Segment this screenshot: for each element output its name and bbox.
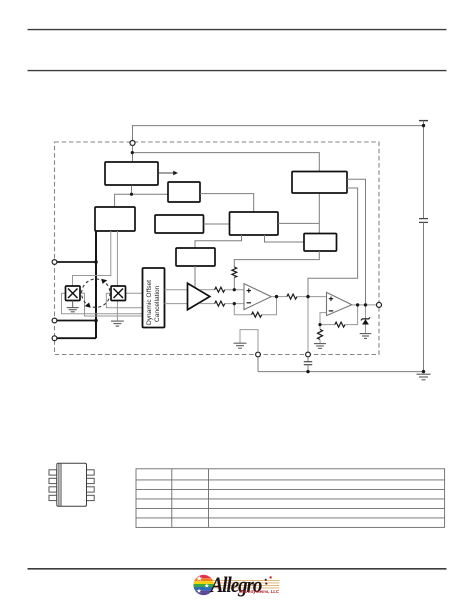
resistor R3: [215, 301, 225, 306]
wire Hall left to ground: [72, 301, 74, 308]
block B3: [168, 182, 200, 202]
ground (below Hall left): [67, 308, 79, 312]
node U2 out zener: [364, 303, 367, 306]
svg-text:Dynamic Offset: Dynamic Offset: [146, 280, 153, 325]
wire U1 feedback left leg: [234, 304, 251, 315]
wire node to R6: [320, 324, 335, 326]
resistor R2: [215, 287, 225, 292]
wire Hall right to DOC (direct): [126, 292, 143, 294]
node U2 minus: [318, 323, 321, 326]
block B4: [155, 215, 204, 233]
wire DOC out lower: [165, 303, 191, 305]
block B7 (clamp): [292, 172, 347, 194]
pin VCC (open circle on boundary): [130, 141, 135, 146]
pin VOUT (open circle): [377, 302, 382, 307]
Hall element left: [66, 286, 81, 301]
op-amp U1: [244, 284, 271, 310]
op-amp U2: [327, 292, 352, 315]
wire A1 out lower: [200, 303, 215, 305]
logo pinstripes: [212, 580, 280, 588]
supply bus (thick) Hall area: [95, 231, 97, 338]
wire B3 to B5: [200, 194, 254, 212]
wire C1 to ground rail: [423, 222, 425, 371]
wire B4 to B5: [204, 223, 230, 225]
wire B5 bottom to B6 top: [195, 235, 242, 248]
chopper rotation circle: [82, 279, 110, 308]
node bus-pin2: [94, 319, 98, 323]
wire to block B3: [132, 193, 169, 195]
wire ground pin to internal ground: [240, 330, 258, 353]
pin left 1: [52, 260, 57, 265]
node U1 minus: [233, 302, 236, 305]
wire pin2 stub: [57, 320, 96, 322]
node C2 on ground wire: [306, 370, 309, 373]
wire R4 to U1 output: [262, 297, 277, 315]
node below supply pin: [131, 151, 134, 154]
block B9: [304, 234, 337, 252]
wire R1 to plus node: [233, 277, 235, 290]
ground (external, right): [417, 374, 431, 380]
block B6: [176, 248, 215, 266]
ground (below Hall right): [111, 321, 124, 326]
wire Hall left to DOC (lower bundle 1): [62, 293, 143, 314]
svg-text:Allegro: Allegro: [209, 574, 262, 598]
resistor R6 (feedback U2): [335, 322, 345, 327]
wire U1 output: [271, 296, 287, 298]
ground (below zener): [360, 334, 372, 339]
resistor R1 (vertical): [232, 267, 237, 277]
wire R6 to U2 output: [345, 305, 358, 325]
wire pin1 stub: [57, 261, 96, 263]
wire to block B2: [115, 194, 132, 207]
wire plus node down to bypass pin: [307, 297, 309, 353]
ground (internal, pin path): [234, 343, 247, 348]
wire B9 bottom to resistor R1: [234, 251, 319, 267]
wire supply pin into regulator: [132, 146, 134, 162]
wire U2 output: [352, 304, 377, 306]
wire DOC out upper: [165, 289, 191, 291]
svg-text:MicroSystems, LLC: MicroSystems, LLC: [239, 589, 280, 594]
wire VCC horizontal to supply pin: [133, 126, 424, 141]
IC boundary (dashed): [55, 142, 380, 355]
wire pin3 stub: [57, 337, 96, 339]
wire Hall left right-terminal to DOC (lower bundle 2): [80, 293, 143, 316]
wire U2 minus leg: [320, 313, 327, 325]
ground (below R7): [314, 344, 326, 349]
wire B2 to Hall right top: [116, 231, 118, 286]
block B2: [95, 207, 135, 231]
wire supply to clamp block B7: [132, 153, 319, 171]
wire B7 bottom to B9 top: [318, 193, 320, 234]
node ground-wire junction: [422, 370, 425, 373]
capacitor C1 (bypass): [419, 219, 428, 223]
VCC terminal: [419, 120, 428, 122]
wire B1 bottom branch: [131, 186, 133, 195]
arrow to-all-subcircuits: [159, 171, 178, 176]
wire Hall right to ground: [116, 301, 118, 321]
footer rule: [28, 568, 447, 570]
logo trademark dots: [265, 576, 272, 584]
dynamic offset cancellation block: [143, 268, 165, 328]
resistor R5 (series): [287, 294, 297, 299]
resistor R4 (feedback U1): [252, 312, 262, 317]
capacitor C2: [304, 357, 312, 372]
wire B7 to output node (right stub): [347, 179, 366, 305]
block B5: [230, 212, 279, 235]
node bus-pin1: [94, 260, 98, 264]
header rule bottom: [28, 70, 447, 72]
wire A1 out upper: [200, 289, 215, 291]
node VCC-wire junction: [422, 124, 425, 127]
pin left 2: [52, 318, 57, 323]
wire B5 right to junction: [278, 222, 319, 224]
wire B6 to amplifier A1: [194, 266, 196, 289]
amplifier A1: [188, 283, 210, 309]
ground wire bottom: [258, 371, 424, 373]
node U1 output: [275, 295, 278, 298]
table: [136, 469, 445, 528]
SOIC package body: [49, 463, 94, 506]
node U2 out feedback: [356, 303, 359, 306]
wire R5 to op-amp U2 plus: [297, 296, 327, 298]
block B1 (regulator): [105, 162, 158, 185]
wire VCC rail upper: [423, 121, 425, 219]
pin ground (open circle): [256, 352, 261, 357]
wire B2 to Hall left top: [73, 231, 111, 286]
logo rainbow circle: [193, 575, 215, 596]
resistor R7 (to ground): [318, 325, 323, 344]
pin bypass (open circle): [306, 352, 311, 357]
wire ground pin to bottom wire: [257, 357, 259, 372]
wire R2 to op-amp U1 plus: [225, 289, 244, 291]
header rule top: [28, 29, 447, 31]
wire R3 to op-amp U1 minus: [225, 303, 244, 305]
node U2 plus: [306, 295, 309, 298]
Hall element right: [111, 286, 126, 301]
wire B5 bottom to B9 left: [265, 235, 305, 242]
wire B7 to plus input (lower stub): [308, 188, 358, 297]
svg-text:Cancellation: Cancellation: [154, 285, 161, 322]
node U1 plus: [233, 288, 236, 291]
zener diode D1: [361, 305, 370, 334]
wire Hall right left-terminal to DOC: [106, 293, 142, 308]
node B1 branch: [130, 193, 133, 196]
pin left 3: [52, 336, 57, 341]
